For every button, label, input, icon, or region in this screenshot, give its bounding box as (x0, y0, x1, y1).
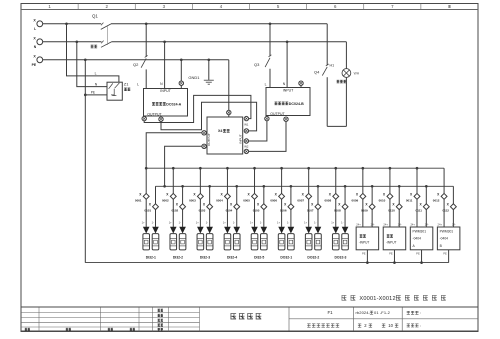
svg-text:-INPUT: -INPUT (386, 241, 397, 245)
svg-text:0101: 0101 (144, 209, 151, 213)
fuse terminal X0108 (342, 204, 348, 210)
wire bus- start down to X0101 (155, 186, 157, 204)
svg-text:24-: 24- (425, 222, 429, 226)
terminal block DO32-1+ (278, 234, 285, 250)
svg-text:rb2024-: rb2024- (356, 310, 371, 315)
node bus- tap 5 (262, 185, 265, 188)
svg-text:PE: PE (443, 251, 447, 255)
svg-text:1-: 1- (341, 221, 343, 225)
terminal X4 OUT- (202, 144, 206, 148)
terminal X:N circle (37, 39, 43, 45)
fuse terminal X0009 (360, 193, 366, 199)
connector arrow DI32-4 + (224, 227, 231, 234)
fuse terminal X0107 (315, 204, 321, 210)
wire L bus after Q1 (111, 23, 327, 25)
svg-text:Z1: Z1 (124, 81, 129, 86)
wire L down to Q3 (269, 24, 271, 56)
svg-text:-0404: -0404 (413, 237, 422, 241)
fuse terminal X0103 (207, 204, 213, 210)
node bus+ tap 11 (416, 167, 419, 170)
connector arrow DI32-3 - (206, 227, 213, 234)
svg-text:DI32-2: DI32-2 (173, 255, 183, 259)
fuse terminal X0006 (279, 193, 285, 199)
fuse terminal X0003 (197, 193, 203, 199)
label 下一页 (407, 324, 419, 327)
wire PE stub module 1 (366, 250, 368, 263)
fuse terminal X0104 (234, 204, 240, 210)
svg-text:1+: 1+ (169, 221, 172, 225)
terminal PE PSU-A (179, 81, 183, 85)
svg-text:INPUT: INPUT (239, 134, 243, 143)
wire ch12- down (452, 210, 454, 227)
label 签字 (108, 328, 113, 330)
label 开关电源 (B) (275, 102, 289, 105)
svg-text:1-: 1- (233, 221, 235, 225)
node PE tap PSU-A (180, 58, 183, 61)
terminal PSU-A out- (159, 117, 163, 121)
filter Z1 (107, 82, 122, 100)
wire ch8+ down (335, 199, 337, 227)
wire bus- drop ch7 (317, 186, 319, 204)
node N tap PSU-B (286, 40, 289, 43)
wire ch5+ down (254, 199, 256, 227)
svg-text:0003: 0003 (189, 199, 196, 203)
isolated power module U3 X4电源 (207, 117, 243, 154)
wire N to Z1 (77, 42, 107, 87)
label 更改 (66, 328, 71, 330)
wire bus+ drop ch4 (226, 168, 228, 193)
fuse terminal X0112 (450, 204, 456, 210)
node bus- tap 10 (398, 185, 401, 188)
terminal block DI32-1+ (143, 234, 150, 250)
connector arrow DI32-1 - (152, 227, 159, 234)
svg-text:1+: 1+ (304, 221, 307, 225)
node bus- tap 3 (208, 185, 211, 188)
wire X4 OUT+ to 24V+ bus (146, 133, 202, 168)
wire bus- drop ch2 (182, 186, 184, 204)
node GND1 tap (207, 58, 210, 61)
svg-text:DI32-3: DI32-3 (200, 255, 210, 259)
svg-text:DC024-A: DC024-A (166, 102, 181, 106)
wire ch10+ down (389, 199, 391, 227)
label 开关电源 (A) (152, 102, 166, 105)
node bus+ tap 5 (253, 167, 256, 170)
svg-text:0106: 0106 (280, 209, 287, 213)
terminal PSU-A out+ (142, 116, 146, 120)
note 端子X0001-X0012为保险丝端子 (342, 296, 356, 301)
connector arrow DI32-4 - (233, 227, 240, 234)
zone ticks (77, 4, 79, 10)
terminal X4 IN2+ (244, 139, 248, 143)
wire bus+ drop ch2 (172, 168, 174, 193)
wire PE drop to PE bus (84, 60, 86, 263)
connector arrow DI32-2 + (170, 227, 177, 234)
label 工艺 (158, 324, 163, 326)
svg-text:0103: 0103 (199, 209, 206, 213)
wire L bus end down to Q4 (326, 24, 328, 66)
wire PSU-A out- to X4 IN1- (161, 102, 257, 131)
wire ch11- down (425, 210, 427, 227)
label 第2页 共10页 (358, 324, 361, 327)
label 滤波 (124, 88, 130, 91)
Q1 pole-N contact tick (101, 41, 103, 44)
svg-text:OUTPUT: OUTPUT (147, 112, 162, 116)
svg-text:0002: 0002 (162, 199, 169, 203)
wire PSU-B out+ to X4 IN2+ (249, 121, 267, 141)
label 日期 (130, 328, 135, 330)
fuse terminal X0010 (387, 193, 393, 199)
svg-text:PWM301: PWM301 (413, 229, 427, 233)
wire bus- drop ch3 (209, 186, 211, 204)
svg-text:L: L (95, 72, 97, 76)
svg-text:L: L (265, 83, 267, 87)
lamp H1 (WH) (342, 69, 351, 78)
svg-text:10: 10 (388, 323, 393, 328)
wire Q2 to PSU-A L input (145, 69, 147, 88)
terminal X4 PE top (227, 110, 231, 114)
svg-text:0109: 0109 (361, 209, 368, 213)
wire PE to Z1 (85, 94, 107, 96)
wire bus+ end down to X0012 (443, 168, 445, 193)
connector arrow DO32-3 - (342, 227, 349, 234)
terminal X:PE circle (37, 57, 43, 63)
power supply U1 开关电源DC024-A (144, 89, 188, 117)
svg-text:PWM301: PWM301 (440, 229, 454, 233)
wire ch3+ down (199, 199, 201, 227)
Q1 linkage line (107, 26, 109, 45)
terminal X4 OUT+ (202, 131, 206, 135)
terminal PE PSU-B (299, 81, 303, 85)
wire bus+ drop ch10 (389, 168, 391, 193)
fuse terminal X0002 (170, 193, 176, 199)
wire bus- drop ch5 (263, 186, 265, 204)
svg-text:DI32-4: DI32-4 (227, 255, 237, 259)
wire PSU-B out- to X4 IN2- (249, 121, 286, 151)
svg-text:24-: 24- (371, 222, 375, 226)
title cell 彭西高速 (231, 314, 262, 319)
connector arrow DI32-5 - (261, 227, 268, 234)
svg-text:1+: 1+ (331, 221, 334, 225)
wire ch11+ down (416, 199, 418, 227)
fuse terminal X0101 (153, 204, 159, 210)
wire PE across (43, 59, 229, 61)
svg-text:PE: PE (32, 63, 37, 67)
terminal PSU-B out+ (265, 116, 269, 120)
power supply U2 开关电源DC024-B (266, 88, 310, 116)
svg-text:24-: 24- (452, 222, 456, 226)
svg-text:X4: X4 (218, 129, 222, 133)
label 合闸 (91, 45, 97, 48)
svg-text:24+: 24+ (438, 222, 443, 226)
connector arrow DO32-2 - (315, 227, 322, 234)
svg-text:INPUT: INPUT (160, 89, 171, 93)
label 标记 (25, 328, 30, 330)
svg-text:24+: 24+ (383, 222, 388, 226)
module U6 PWM301 box (410, 227, 433, 250)
module U4 -INPUT box (356, 227, 379, 250)
wire bus+ drop ch9 (362, 168, 364, 193)
wire lamp to N bus end (345, 42, 347, 69)
node PE bus tap 2 (393, 261, 396, 264)
wire bus+ drop ch3 (199, 168, 201, 193)
svg-text:INPUT: INPUT (283, 88, 294, 92)
wire bus- drop ch6 (290, 186, 292, 204)
wire N from terminal to Q1 (43, 41, 102, 43)
terminal block DI32-5- (261, 234, 268, 250)
node bus- tap 2 (181, 185, 184, 188)
wire PE down to PSU-A (180, 60, 182, 81)
wire ch5- down (263, 210, 265, 227)
node bus+ tap 4 (226, 167, 229, 170)
svg-text:Q1: Q1 (92, 14, 98, 19)
label 批准 (158, 328, 163, 330)
ground GND1 (204, 79, 214, 81)
svg-text:DO32-1: DO32-1 (280, 255, 292, 259)
svg-text:0011: 0011 (406, 199, 413, 203)
svg-text:L: L (34, 27, 36, 31)
label 设计 (158, 309, 163, 311)
label module CJK name (387, 235, 393, 238)
svg-text:DI32-5: DI32-5 (254, 255, 264, 259)
terminal PSU-B out- (284, 117, 288, 121)
node PE bus tap 1 (366, 261, 369, 264)
node bus+ tap 10 (389, 167, 392, 170)
wire ch10- down (398, 210, 400, 227)
svg-text:PE: PE (416, 251, 420, 255)
terminal block DI32-4+ (224, 234, 231, 250)
node bus- tap 8 (344, 185, 347, 188)
svg-text:GND1: GND1 (188, 75, 200, 80)
connector arrow DI32-2 - (179, 227, 186, 234)
svg-text:0009: 0009 (352, 199, 359, 203)
svg-text:0006: 0006 (270, 199, 277, 203)
svg-text:OUTPUT: OUTPUT (270, 112, 285, 116)
wire N bus after Q1 (111, 41, 346, 43)
svg-text:0008: 0008 (324, 199, 331, 203)
terminal block DI32-3+ (197, 234, 204, 250)
terminal block DO32-3+ (332, 234, 339, 250)
wire bus+ drop ch8 (335, 168, 337, 193)
wire ch8- down (344, 210, 346, 227)
wire bus+ drop ch6 (281, 168, 283, 193)
label 照明灯 (337, 80, 347, 83)
node PE bus tap 3 (420, 261, 423, 264)
wire bus- drop ch10 (398, 186, 400, 204)
svg-text:24+: 24+ (410, 222, 415, 226)
svg-text:0007: 0007 (297, 199, 304, 203)
wire lamp up (345, 77, 347, 126)
module U5 -INPUT box (383, 227, 406, 250)
terminal block DO32-1- (288, 234, 295, 250)
wire X4 OUT- to 24V- bus (165, 146, 202, 186)
fuse terminal X0011 (414, 193, 420, 199)
node bus- feed (163, 185, 166, 188)
wire L from terminal to Q1 (43, 23, 101, 25)
svg-text:-0404: -0404 (440, 237, 449, 241)
title block (21, 306, 478, 308)
bus 24V- (156, 185, 454, 187)
wire ch4+ down (226, 199, 228, 227)
node N tap for Z1 (75, 40, 78, 43)
connector arrow DI32-5 + (251, 227, 258, 234)
Q1 pole-L contact tick (101, 23, 103, 26)
fuse terminal X0109 (369, 204, 375, 210)
svg-text:1+: 1+ (277, 221, 280, 225)
wire lamp loop bottom (327, 125, 346, 127)
connector arrow DI32-1 + (143, 227, 150, 234)
svg-text:-INPUT: -INPUT (359, 241, 370, 245)
wire L to Z1 (67, 24, 119, 82)
svg-text:0001: 0001 (135, 199, 142, 203)
svg-text:1-: 1- (287, 221, 289, 225)
node bus+ tap 8 (334, 167, 337, 170)
svg-text:F1: F1 (327, 310, 333, 315)
svg-text:PE: PE (362, 251, 366, 255)
terminal block DI32-2- (179, 234, 186, 250)
node bus+ tap 7 (307, 167, 310, 170)
svg-text:WH: WH (354, 72, 360, 76)
terminal block DO32-2+ (305, 234, 312, 250)
node L tap Q2 (145, 22, 148, 25)
wire ch9+ down (362, 199, 364, 227)
svg-text:PE: PE (91, 91, 95, 95)
svg-text:H1: H1 (330, 64, 335, 68)
wire ch6- down (290, 210, 292, 227)
terminal block DI32-2+ (170, 234, 177, 250)
terminal block DI32-1- (152, 234, 159, 250)
svg-text:0105: 0105 (253, 209, 260, 213)
terminal block DO32-3- (342, 234, 349, 250)
node bus- tap 9 (371, 185, 374, 188)
svg-text::: : (420, 310, 421, 315)
svg-text:DO32-3: DO32-3 (334, 255, 346, 259)
svg-text:0108: 0108 (334, 209, 341, 213)
wire ch3- down (209, 210, 211, 227)
fuse terminal X0001 (143, 193, 149, 199)
wire N down to PSU-A (164, 42, 166, 89)
terminal block DI32-3- (206, 234, 213, 250)
label 柜内配电原理图 (307, 324, 339, 327)
node bus+ tap 2 (172, 167, 175, 170)
wire bus+ drop ch1 (145, 168, 147, 193)
svg-text:Q2: Q2 (133, 62, 139, 67)
svg-text:1-: 1- (260, 221, 262, 225)
wire ch2+ down (172, 199, 174, 227)
fuse terminal X0102 (180, 204, 186, 210)
wire PE down to X4 top (228, 60, 230, 111)
wire ch4- down (236, 210, 238, 227)
svg-text:1+: 1+ (250, 221, 253, 225)
svg-text:1-: 1- (206, 221, 208, 225)
svg-text::: : (420, 323, 421, 328)
wire PSU-A out+ to X4 IN1+ (144, 95, 251, 122)
node bus+ tap 1 (145, 167, 148, 170)
svg-text:X0001-X0012: X0001-X0012 (359, 296, 395, 302)
wire ch6+ down (281, 199, 283, 227)
svg-text:0110: 0110 (388, 209, 395, 213)
wire ch7- down (317, 210, 319, 227)
label 审核 (158, 319, 163, 321)
wire bus+ drop ch7 (308, 168, 310, 193)
svg-text:1+: 1+ (223, 221, 226, 225)
node L tap for Z1 (65, 22, 68, 25)
svg-text:0107: 0107 (307, 209, 314, 213)
svg-text:DC024-B: DC024-B (289, 102, 304, 106)
wire ch2- down (182, 210, 184, 227)
fuse terminal X0012 (441, 193, 447, 199)
svg-text:1+: 1+ (196, 221, 199, 225)
svg-text:Q3: Q3 (254, 62, 260, 67)
Q1 pole-N blade (101, 42, 111, 47)
svg-text:01 -F1-2: 01 -F1-2 (374, 310, 391, 315)
node PE tap (84, 58, 87, 61)
connector arrow DO32-2 + (305, 227, 312, 234)
zone band inner line (21, 9, 478, 11)
wire N down to PSU-B (286, 42, 288, 88)
wire bus+ drop ch5 (254, 168, 256, 193)
svg-text:0104: 0104 (226, 209, 233, 213)
wire to GND1 (208, 60, 210, 80)
svg-text:IN2: IN2 (244, 144, 249, 148)
label module CJK name (360, 235, 366, 238)
svg-text:24-: 24- (398, 222, 402, 226)
terminal X4 IN1- (244, 129, 248, 133)
node bus+ tap 3 (199, 167, 202, 170)
bus 24V+ (146, 167, 444, 169)
wire bus- end down to X0112 (452, 186, 454, 204)
wire ch7+ down (308, 199, 310, 227)
fuse terminal X0106 (288, 204, 294, 210)
fuse terminal X0105 (261, 204, 267, 210)
wire bus+ drop ch11 (416, 168, 418, 193)
wire L down to Q2 (145, 24, 147, 57)
connector arrow DO32-3 + (332, 227, 339, 234)
node L tap Q3 (269, 22, 272, 25)
svg-text:0102: 0102 (171, 209, 178, 213)
node bus+ tap 6 (280, 167, 283, 170)
connector arrow DI32-3 + (197, 227, 204, 234)
wire bus- drop ch4 (236, 186, 238, 204)
wire PE stub module 3 (421, 250, 423, 263)
svg-text:1-: 1- (152, 221, 154, 225)
svg-text:DI32-1: DI32-1 (146, 255, 156, 259)
wire ch9- down (371, 210, 373, 227)
fuse terminal X0004 (224, 193, 230, 199)
connector arrow DO32-1 + (278, 227, 285, 234)
label 上一页 (407, 311, 419, 314)
node bus- tap 11 (425, 185, 428, 188)
module U7 PWM301 box (437, 227, 460, 250)
terminal X:L circle (37, 21, 43, 27)
svg-text:L: L (137, 83, 139, 87)
svg-text:DO32-2: DO32-2 (307, 255, 319, 259)
label 制图 (158, 314, 163, 316)
wire bus- drop ch11 (425, 186, 427, 204)
node bus+ tap 9 (361, 167, 364, 170)
bus PE bottom (85, 262, 448, 264)
wire Q3 to PSU-B L input (269, 69, 271, 88)
connector arrow DO32-1 - (288, 227, 295, 234)
svg-text:0010: 0010 (379, 199, 386, 203)
svg-text:PE: PE (389, 251, 393, 255)
svg-text:0112: 0112 (442, 209, 449, 213)
svg-text:Q4: Q4 (314, 70, 320, 75)
terminal X4 IN1+ (244, 116, 248, 120)
svg-text:1-: 1- (314, 221, 316, 225)
node bus- tap 7 (317, 185, 320, 188)
node N tap PSU-A (163, 40, 166, 43)
node PE-Z1 junction (84, 94, 87, 97)
